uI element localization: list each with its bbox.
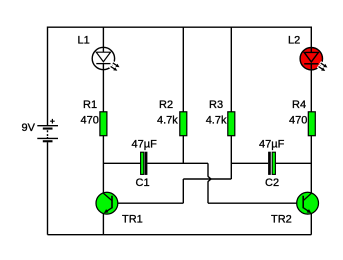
wire riser — [182, 179, 184, 203]
wire L1 to R1 — [102, 70, 104, 112]
svg-text:R1: R1 — [83, 99, 97, 111]
wire TR1 emitter to bottom rail — [102, 213, 104, 235]
wire col4 rail to L2 — [310, 27, 312, 49]
wire C1 right plate to hop column — [147, 162, 208, 164]
resistor R4 470 — [308, 112, 315, 136]
wire hop column lower to TR2 base level — [207, 182, 209, 204]
wire node col1 to C1 left plate — [103, 162, 140, 164]
wire C2 right plate to col4 — [276, 162, 312, 164]
svg-text:47µF: 47µF — [132, 138, 158, 150]
svg-text:470: 470 — [81, 115, 99, 127]
wire node col3 to C2 left plate — [231, 162, 268, 164]
wire left column lower (battery - to bottom rail) — [47, 142, 49, 235]
resistor R1 470 — [100, 112, 107, 136]
LED L2 — [300, 48, 328, 73]
svg-text:470: 470 — [289, 115, 307, 127]
svg-text:R4: R4 — [292, 99, 306, 111]
svg-text:4.7k: 4.7k — [157, 115, 178, 127]
wire R4 to TR2 collector (junction to C2 at y163) — [310, 136, 312, 194]
battery B1 9V — [37, 119, 58, 142]
svg-text:R3: R3 — [209, 99, 223, 111]
wire col3 rail to R3 — [230, 27, 232, 112]
wire col2 rail to R2 — [182, 27, 184, 112]
transistor TR1 — [96, 192, 118, 214]
wire TR1 base to riser — [112, 202, 184, 204]
wire R3 bottom through node y163 down to cross wire — [230, 136, 232, 179]
wire left column upper (rail to battery +) — [47, 27, 49, 126]
capacitor C2 47uF — [268, 152, 275, 175]
svg-text:47µF: 47µF — [259, 138, 285, 150]
transistor TR2 — [297, 192, 319, 214]
svg-text:4.7k: 4.7k — [206, 115, 227, 127]
svg-text:TR1: TR1 — [122, 214, 143, 226]
wire hop column upper — [207, 163, 209, 176]
wire top rail — [48, 26, 312, 28]
wire col1 rail to L1 — [102, 27, 104, 48]
LED L1 — [92, 47, 120, 72]
wire TR2 emitter to bottom rail — [310, 213, 312, 235]
svg-text:R2: R2 — [159, 99, 173, 111]
wire bottom rail — [48, 234, 312, 236]
wire cross to R3 column — [183, 178, 231, 180]
crossover hop — [208, 176, 211, 182]
resistor R2 4.7k — [180, 112, 187, 136]
wire R2 bottom to node at y163 — [182, 136, 184, 164]
svg-text:C1: C1 — [136, 177, 150, 189]
svg-text:TR2: TR2 — [271, 214, 292, 226]
svg-text:L1: L1 — [78, 35, 90, 47]
wire to TR2 base — [208, 202, 298, 204]
wire R1 to TR1 collector (junction to C1 at y163) — [102, 136, 104, 194]
capacitor C1 47uF — [141, 152, 148, 175]
svg-text:C2: C2 — [265, 177, 279, 189]
svg-text:L2: L2 — [288, 35, 300, 47]
resistor R3 4.7k — [228, 112, 235, 136]
wire L2 to R4 — [310, 70, 312, 112]
svg-text:9V: 9V — [22, 122, 36, 134]
